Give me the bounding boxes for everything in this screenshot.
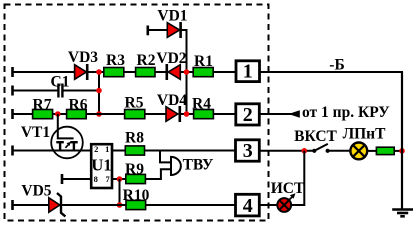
svg-text:R10: R10 [123,187,150,204]
wire C1 to node column A [62,90,99,92]
wire VD4 to column [180,113,193,115]
wire lamp to resistor [367,150,376,152]
resistor R8 [125,146,144,155]
resistor R7 [33,110,53,119]
wire R5-VD4 [145,113,166,115]
capacitor C1 [58,84,62,98]
svg-text:1: 1 [105,144,109,154]
svg-text:U1: U1 [91,155,111,174]
node A C1 row [96,88,102,94]
svg-text:1: 1 [243,61,253,83]
svg-text:R3: R3 [106,52,125,69]
svg-text:R4: R4 [192,95,211,112]
svg-text:8: 8 [94,174,98,184]
wire R7-R6 [53,113,66,115]
node R10 row junction [117,202,123,208]
resistor R10 [126,200,146,209]
svg-text:ЛПнТ: ЛПнТ [343,125,387,142]
transistor VT1 [51,127,83,159]
svg-text:ИСТ: ИСТ [271,180,305,197]
diode VD3 [75,64,88,80]
wire row3 left terminal through VT1 to U1 [13,146,92,156]
node right bus junction [399,148,405,154]
svg-text:-Б: -Б [329,57,344,74]
wire switch to lamp [328,150,351,152]
resistor R5 [125,110,145,119]
terminal box 1 [236,61,260,83]
wire pin7 column down to R10 row [119,179,121,205]
wire row5 left terminal [13,200,51,210]
node VD1-column row4 [184,111,190,117]
resistor R2 [136,68,155,77]
ground [392,210,413,217]
wire TVU top input branch [160,151,171,163]
node A row4 [96,111,102,117]
svg-text:ТВУ: ТВУ [183,156,214,173]
arrow to KRU [289,110,300,117]
IC U1 [91,144,112,188]
lamp LPnT [350,143,367,160]
svg-text:2: 2 [243,104,253,126]
svg-text:7: 7 [105,174,110,184]
resistor R4 [194,110,214,119]
wire vertical from VD1 down to row4 [186,30,188,114]
wire R3-R2 [124,71,135,73]
node VD1-column row1 [184,69,190,75]
resistor R3 [104,68,124,77]
wire VD5 to R10 [61,204,126,206]
wire R6 to node A [87,113,125,115]
zener VD5 [49,193,66,216]
svg-text:VD5: VD5 [21,182,51,199]
svg-text:от 1 пр. КРУ: от 1 пр. КРУ [302,104,390,121]
svg-text:VT1: VT1 [21,124,50,141]
wire box4 to IST lamp [260,204,279,206]
svg-text:R5: R5 [125,94,144,111]
svg-text:VD3: VD3 [68,49,98,66]
wire row1 left terminal [13,67,76,77]
wire U1 pin1 to R8 [112,150,125,152]
dashed enclosure border [5,5,269,221]
wire U1 pin7 to R9 [112,178,125,180]
svg-text:R9: R9 [125,161,144,178]
wire R2-VD2 [156,71,167,73]
wire row4 left terminal [13,109,33,119]
svg-text:C1: C1 [51,73,70,90]
diode VD4 [166,106,180,122]
svg-text:R1: R1 [194,53,213,70]
svg-text:R8: R8 [125,129,144,146]
diode VD1 [167,22,180,38]
svg-text:VD4: VD4 [157,92,187,109]
terminal box 2 [236,104,259,126]
sounder TVU [171,157,181,175]
wire -B from box1 to right bus [260,71,404,73]
node U1 pin7 junction [117,176,123,182]
wire gate column from R7/R6 node [58,114,74,138]
wire resistor to right bus [395,150,403,152]
wire node column A vertical [98,72,100,114]
diode VD2 [167,64,181,80]
svg-text:ВКСТ: ВКСТ [294,128,337,145]
svg-text:R2: R2 [137,52,156,69]
wire U1 pin8 stub [62,174,91,184]
wire IST lamp up to switch node [291,151,304,205]
wire VD3 to node A [87,71,103,73]
svg-text:VD2: VD2 [156,50,186,67]
wire box2 to KRU arrow [260,113,300,115]
wire C1 row left terminal [13,86,58,96]
svg-text:3: 3 [243,140,253,162]
node A row1 [96,69,102,75]
wire R10 to box4 [146,204,236,206]
wire VD1 branch [147,26,188,36]
indicator lamp IST [277,193,295,212]
svg-text:VD1: VD1 [157,8,187,25]
terminal box 4 [236,194,260,217]
wire R9 to TVU bottom input [146,169,171,179]
wire right bus vertical [401,72,403,210]
wire R4 to box2 [214,113,236,115]
svg-text:4: 4 [243,195,253,217]
resistor LPnT ballast [376,147,394,154]
wire R1 to box1 [214,71,237,73]
svg-text:2: 2 [94,144,98,154]
resistor R6 [67,110,87,119]
node switch junction [302,148,308,154]
terminal box 3 [236,140,260,162]
node R7/R6 junction [55,111,61,117]
svg-text:R6: R6 [69,96,88,113]
wire R8 to box3 [145,150,236,152]
resistor R9 [126,174,146,183]
wire box3 to switch [260,150,316,152]
svg-text:R7: R7 [33,96,52,113]
wire VD2 to VD1 column [180,71,193,73]
resistor R1 [193,68,213,77]
switch VKST [312,144,330,153]
